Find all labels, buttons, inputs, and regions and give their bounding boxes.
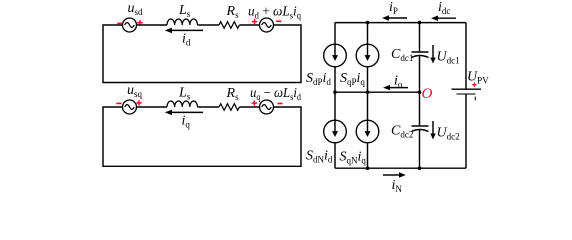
polarity plus of u_sd [137,20,142,25]
wire u_sd to Ls [137,24,168,26]
wire right branch top rail to battery [465,23,467,89]
battery UPV negative plate [457,93,476,95]
junction cap branch top rail [418,21,422,25]
current arrow iN [383,172,406,177]
polarity minus of u_q source [277,103,282,105]
voltage arrow Udc2 [430,121,435,140]
inductor Ls (d-axis) [167,19,197,25]
current arrow idc [431,16,456,21]
polarity plus of UPV [472,83,476,87]
polarity minus of u_d source [276,20,281,22]
junction node O on middle rail [418,90,422,94]
wire middle rail [335,91,420,93]
wire branch1 middle rail to source SdN [334,92,336,120]
wire cap branch top rail to Cdc1 [419,23,421,52]
capacitor Cdc1 [412,52,429,58]
current source SdN id [324,120,347,143]
wire q-loop left/bottom/right frame [103,107,301,166]
current source SdP id [324,44,347,67]
wire Rs to controlled source [239,24,259,26]
wire branch2 source to middle rail [367,67,369,92]
voltage source u_sd [123,18,137,32]
polarity plus of u_d source [252,19,257,24]
wire dc top rail [335,22,466,24]
junction branch2 middle rail [366,90,370,94]
wire branch2 source SqN to bottom rail [367,143,369,168]
polarity plus of u_sq [136,100,141,105]
current arrow id [165,28,203,34]
resistor Rs (q-axis) [219,104,239,111]
wire dc bottom rail [335,167,466,169]
capacitor Cdc2 [412,126,429,132]
wire right branch battery to bottom rail [465,94,467,168]
polarity plus of u_q source [252,100,257,105]
controlled source u_q - wLs id [260,100,274,114]
current arrow iq [165,110,203,116]
inductor Ls (q-axis) [167,101,197,107]
battery UPV positive plate [452,88,482,90]
current source SqN iq [356,120,379,143]
polarity minus tick of UPV [474,97,476,101]
current arrow iP [382,15,407,20]
wire branch1 from top rail to source SdP [334,23,336,45]
wire u_sq to Ls [137,106,168,108]
junction branch2 bottom rail [366,166,370,170]
wire cap branch Cdc2 to bottom rail [419,130,421,168]
current source SqP iq [356,44,379,67]
voltage source u_sq [123,100,137,114]
resistor Rs (d-axis) [219,22,239,29]
wire branch2 from top rail to source SqP [367,23,369,45]
wire branch1 source SdN to bottom rail [334,143,336,168]
controlled source u_d + wLs iq [260,18,274,32]
junction cap branch bottom rail [418,166,422,170]
wire Ls to Rs [198,24,220,26]
wire Rs to controlled source (q-axis) [239,106,259,108]
wire branch1 source to middle rail [334,67,336,92]
wire d-loop left/bottom/right frame [103,25,301,83]
wire Ls to Rs (q-axis) [198,106,220,108]
wire branch2 middle rail to source SqN [367,92,369,120]
polarity minus of u_sq [116,102,121,104]
svg-text:O: O [422,86,433,102]
polarity minus of u_sd [117,22,122,24]
wire cap branch Cdc1 to middle rail [419,56,421,92]
junction branch2 top rail [366,21,370,25]
voltage arrow Udc1 [430,45,435,64]
wire cap branch middle rail to Cdc2 [419,92,421,126]
junction branch1 middle rail [333,90,337,94]
current arrow io [383,85,408,90]
